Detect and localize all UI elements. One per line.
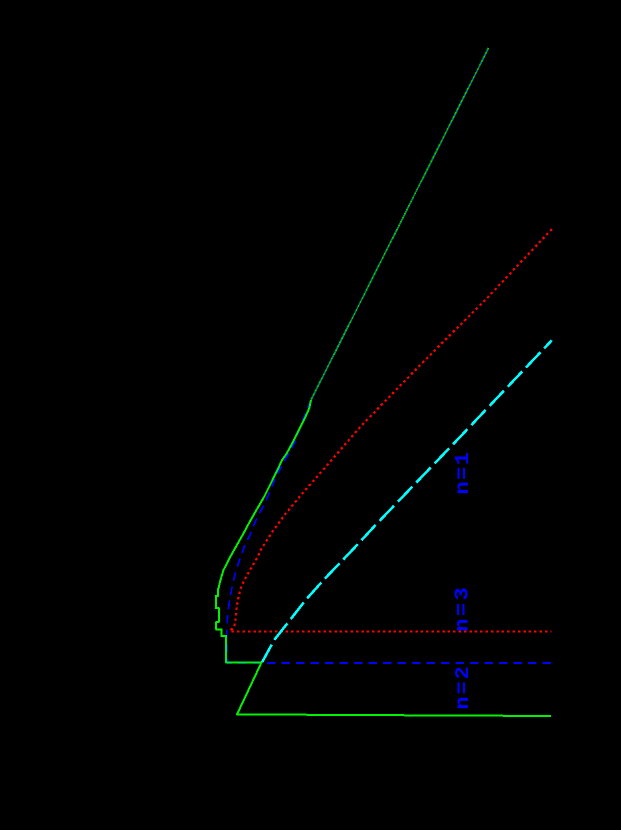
svg-text:n=2: n=2 [453,666,475,710]
green+blue merged top diagonal: teal dots [311,48,489,400]
label n=1 [453,452,475,495]
green+blue merged top diagonal: green dots [311,48,489,400]
svg-text:n=1: n=1 [453,452,475,495]
red dotted n=3 curve [230,229,552,631]
blue dashed n=2 curve [227,400,552,663]
cyan long-dashed n=1 curve [262,340,552,662]
green solid main curve (bright lower part) [216,400,551,716]
label n=3 [452,587,474,632]
svg-text:n=3: n=3 [452,587,474,632]
label n=2 [453,666,475,710]
green+blue merged top diagonal: dark base [311,48,489,400]
